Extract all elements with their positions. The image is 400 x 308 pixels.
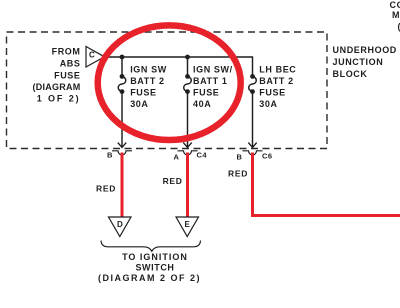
node junction dot 1 (120, 55, 125, 60)
wire fuse1 to connector (121, 92, 123, 148)
svg-text:C6: C6 (262, 152, 273, 161)
connector terminal B (pin of C6) (243, 151, 263, 155)
svg-text:E: E (185, 220, 191, 229)
svg-text:D: D (117, 220, 123, 229)
fuse F1 label (130, 64, 167, 109)
svg-text:RED: RED (96, 184, 116, 194)
svg-text:30A: 30A (130, 99, 148, 109)
svg-text:IGN SW: IGN SW (130, 64, 167, 74)
svg-text:1 OF 2): 1 OF 2) (37, 94, 81, 104)
label FROM ABS FUSE (DIAGRAM 1 OF 2) (33, 46, 81, 103)
svg-text:(DIAGRAM: (DIAGRAM (33, 82, 81, 92)
svg-text:FUSE: FUSE (193, 88, 219, 98)
label TO IGNITION SWITCH (DIAGRAM 2 OF 2) (98, 252, 201, 283)
wire: horizontal bus (105, 56, 253, 58)
wire red 2 (186, 153, 189, 218)
wire fuse3 drop (252, 56, 254, 76)
svg-text:JUNCTION: JUNCTION (333, 57, 384, 67)
fuse F1 symbol (118, 76, 126, 91)
red annotation ellipse circling IGN SW fuses (98, 25, 241, 140)
svg-text:FROM: FROM (52, 46, 81, 56)
svg-text:BATT 2: BATT 2 (130, 76, 164, 86)
svg-text:RED: RED (228, 168, 248, 178)
svg-text:B: B (107, 151, 113, 160)
svg-text:TO IGNITION: TO IGNITION (122, 252, 188, 262)
svg-text:MO: MO (392, 10, 400, 20)
svg-text:(DIAGRAM 2 OF 2): (DIAGRAM 2 OF 2) (98, 273, 201, 283)
svg-text:ABS: ABS (60, 58, 81, 68)
underhood junction block dashed box (7, 32, 328, 149)
svg-text:C4: C4 (197, 151, 208, 160)
svg-text:FUSE: FUSE (54, 70, 80, 80)
fuse F2 label (193, 64, 233, 109)
connector triangle E (176, 217, 199, 237)
svg-text:C: C (89, 51, 95, 60)
svg-text:FUSE: FUSE (259, 88, 285, 98)
svg-text:SWITCH: SWITCH (135, 263, 174, 273)
fuse F3 symbol (249, 76, 257, 91)
wire red 3 (turns right, exits) (253, 153, 400, 216)
svg-text:RED: RED (163, 176, 183, 186)
svg-text:B: B (237, 153, 243, 162)
svg-text:30A: 30A (259, 99, 277, 109)
svg-text:40A: 40A (193, 99, 211, 109)
wire fuse2 drop (187, 57, 189, 76)
connector triangle D (109, 217, 132, 237)
svg-text:BATT 1: BATT 1 (193, 76, 227, 86)
svg-text:LH BEC: LH BEC (259, 64, 296, 74)
svg-text:CON: CON (390, 0, 400, 10)
clipped text top-right corner (390, 0, 400, 32)
connector arrow C (from ABS fuse) (86, 47, 105, 68)
wire fuse1 drop (121, 57, 123, 76)
svg-text:BATT 2: BATT 2 (259, 76, 293, 86)
connector terminal A (pin of C4) (178, 151, 198, 155)
svg-text:FUSE: FUSE (130, 88, 156, 98)
svg-text:A: A (174, 153, 180, 162)
label UNDERHOOD JUNCTION BLOCK (333, 45, 397, 79)
brace under D and E (101, 241, 201, 252)
svg-text:BLOCK: BLOCK (333, 69, 368, 79)
svg-text:IGN SW/: IGN SW/ (193, 64, 233, 74)
wire red 1 (121, 153, 124, 218)
wire fuse3 to connector (252, 92, 254, 148)
node junction dot 2 (185, 55, 190, 60)
wire fuse2 to connector (187, 92, 189, 148)
svg-text:UNDERHOOD: UNDERHOOD (333, 45, 397, 55)
fuse F2 symbol (184, 76, 192, 91)
connector terminal B (pin of C4) (112, 151, 132, 155)
fuse F3 label (259, 64, 296, 109)
